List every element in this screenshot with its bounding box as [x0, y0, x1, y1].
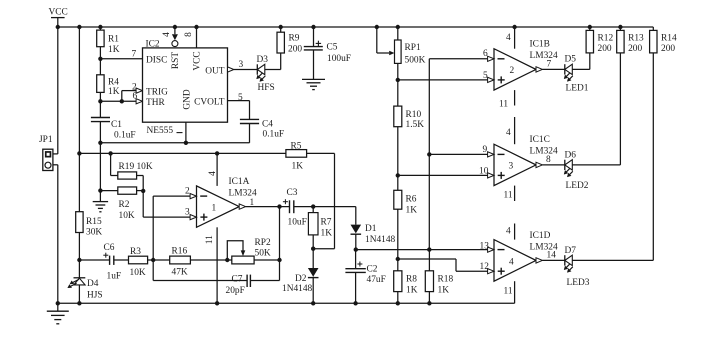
- svg-text:CVOLT: CVOLT: [194, 98, 225, 108]
- capacitor C5 100uF: [304, 41, 351, 64]
- junction output/feedback: [277, 204, 281, 208]
- ground symbol bottom left: [47, 303, 69, 324]
- svg-text:4: 4: [509, 257, 514, 267]
- junction R7 top: [311, 204, 315, 208]
- wire rail to R12: [589, 27, 591, 30]
- wire VCC rail to JP1 pin 1: [53, 27, 58, 154]
- wire VCC top rail: [58, 26, 654, 28]
- junction on VCC rail: [618, 25, 622, 29]
- svg-text:RP2: RP2: [255, 238, 271, 248]
- RP1 wiper arrow: [389, 51, 394, 56]
- wire IC1D output to D7: [542, 259, 564, 261]
- LED D5 LED1: [564, 55, 589, 94]
- op-amp IC1D LM324: [480, 231, 558, 281]
- svg-text:4: 4: [506, 33, 511, 43]
- junction on VCC rail: [396, 25, 400, 29]
- svg-text:13: 13: [480, 242, 490, 252]
- svg-text:4: 4: [506, 128, 511, 138]
- pin 5 CVOLT wire to C4: [228, 93, 250, 119]
- wire D2 node to D2: [312, 249, 314, 268]
- wire C6 to R3: [114, 259, 129, 261]
- junction RP1/R10 node: [396, 78, 400, 82]
- wire C6 node to C6: [79, 259, 109, 261]
- svg-text:R7: R7: [321, 218, 332, 228]
- svg-text:R16: R16: [172, 246, 188, 256]
- svg-text:11: 11: [205, 235, 215, 244]
- svg-text:4: 4: [506, 227, 511, 237]
- svg-text:7: 7: [132, 50, 137, 60]
- pin 3 OUT arrow: [228, 60, 244, 72]
- junction on VCC rail: [279, 25, 283, 29]
- svg-text:LED2: LED2: [566, 181, 589, 191]
- junction feedback/output node: [277, 258, 281, 262]
- svg-text:R8: R8: [406, 275, 417, 285]
- wire node to IC1B pin 5: [398, 79, 488, 81]
- svg-text:200: 200: [288, 44, 302, 54]
- wire R18 top lead: [428, 250, 430, 271]
- pin 6 THR arrow: [133, 92, 143, 104]
- wire THR node to C1: [99, 101, 101, 117]
- resistor R16 47K: [170, 246, 191, 277]
- svg-text:200: 200: [661, 44, 675, 54]
- svg-text:10K: 10K: [119, 211, 135, 221]
- resistor R8 1K: [394, 271, 418, 296]
- svg-text:DISC: DISC: [146, 56, 167, 66]
- wire bus to IC1C pin 9: [429, 153, 488, 155]
- junction D1/C2 node: [354, 247, 358, 251]
- wire TRIG branch: [122, 91, 136, 102]
- svg-text:6: 6: [483, 49, 488, 59]
- svg-text:LM324: LM324: [530, 243, 558, 253]
- junction R10/R6 node: [396, 173, 400, 177]
- capacitor C7 20pF: [226, 275, 251, 296]
- junction R6/R8 node: [396, 257, 400, 261]
- wire IC1B output to D5: [542, 68, 564, 70]
- svg-text:JP1: JP1: [39, 135, 53, 145]
- IC U2 NE555 body: [143, 40, 228, 137]
- svg-text:10uF: 10uF: [288, 218, 307, 228]
- op-amp IC1C LM324: [479, 135, 558, 186]
- junction on VCC rail: [56, 25, 60, 29]
- resistor R15 30K: [76, 212, 103, 238]
- wire C2 to ground rail: [355, 272, 357, 303]
- junction RP2 wiper loop node: [225, 258, 229, 262]
- diode D2 1N4148: [282, 268, 319, 294]
- svg-text:R18: R18: [438, 275, 454, 285]
- svg-text:4: 4: [162, 32, 172, 37]
- svg-text:C6: C6: [104, 243, 115, 253]
- svg-text:THR: THR: [146, 98, 165, 108]
- svg-text:6: 6: [133, 92, 138, 102]
- potentiometer RP1 500K: [395, 40, 426, 66]
- junction on VCC rail: [311, 25, 315, 29]
- svg-text:5: 5: [483, 71, 488, 81]
- svg-text:R3: R3: [130, 247, 141, 257]
- svg-text:500K: 500K: [405, 56, 426, 66]
- svg-text:20pF: 20pF: [226, 286, 245, 296]
- svg-text:2: 2: [510, 66, 515, 76]
- junction IC1A pin11 ground: [215, 301, 219, 305]
- wire D2 to ground rail: [312, 277, 314, 304]
- ground symbol under R2: [93, 191, 108, 212]
- wire node to IC1D pin 12: [398, 259, 488, 271]
- wire JP1 pin 2 to ground rail: [53, 165, 58, 303]
- svg-text:LM324: LM324: [530, 51, 558, 61]
- IC1C pin 4 stub: [506, 117, 515, 144]
- svg-text:R5: R5: [291, 141, 302, 151]
- resistor R9 200: [277, 32, 302, 54]
- wire D5 to R12: [572, 53, 590, 70]
- IC1C pin 11 stub: [504, 186, 515, 201]
- wire gnd net down to R2: [99, 143, 101, 191]
- svg-text:1: 1: [212, 203, 217, 213]
- svg-text:1K: 1K: [108, 87, 120, 97]
- resistor R2 10K: [118, 187, 137, 221]
- svg-text:NE555: NE555: [147, 126, 174, 136]
- wire C6 node down to D4: [78, 260, 80, 278]
- wire R2 left lead: [100, 190, 117, 192]
- svg-text:10K: 10K: [130, 268, 146, 278]
- svg-text:VCC: VCC: [49, 8, 68, 18]
- svg-text:0.1uF: 0.1uF: [263, 130, 285, 140]
- junction bus bottom node: [427, 247, 431, 251]
- svg-text:D1: D1: [365, 224, 377, 234]
- IC1B pin 11 stub: [499, 90, 515, 109]
- wire D3 to R9: [265, 53, 281, 70]
- svg-text:8: 8: [184, 32, 194, 37]
- junction bias wire IC1A pin4: [215, 151, 219, 155]
- wire rail to RP1 top: [397, 27, 399, 40]
- wire C7 branch right: [250, 260, 279, 281]
- svg-text:47uF: 47uF: [367, 275, 386, 285]
- pin 1 GND stub: [185, 122, 187, 143]
- wire R1 to pin7 node: [99, 47, 101, 59]
- junction feedback node pin2: [151, 258, 155, 262]
- wire node to IC1C pin 10: [398, 174, 488, 176]
- svg-text:C5: C5: [327, 43, 338, 53]
- wire gnd net C1-C4: [100, 142, 249, 144]
- IC1A pin 4 stub: [208, 153, 218, 186]
- svg-text:10: 10: [479, 167, 489, 177]
- wire R7 to D2 node: [312, 235, 314, 249]
- wire node down to R6: [397, 175, 399, 190]
- wire rail to R14: [652, 27, 654, 30]
- svg-text:3: 3: [239, 60, 244, 70]
- wire R4 to THR node: [99, 92, 101, 101]
- svg-text:200: 200: [598, 44, 612, 54]
- svg-text:LED3: LED3: [567, 278, 590, 288]
- svg-text:TRIG: TRIG: [146, 87, 168, 97]
- junction R7/D2/R5 node: [311, 247, 315, 251]
- svg-text:1N4148: 1N4148: [365, 235, 396, 245]
- wire node down to R10: [397, 80, 399, 106]
- junction on VCC rail: [375, 25, 379, 29]
- wire pin7 node to R4: [99, 59, 101, 75]
- svg-text:R12: R12: [598, 33, 614, 43]
- junction NE555 GND pin: [184, 141, 188, 145]
- junction D2 ground: [311, 301, 315, 305]
- svg-text:1K: 1K: [321, 229, 333, 239]
- capacitor C1 0.1uF: [91, 118, 136, 141]
- svg-text:200: 200: [628, 44, 642, 54]
- svg-text:47K: 47K: [172, 268, 188, 278]
- svg-text:8: 8: [546, 155, 551, 165]
- svg-text:R14: R14: [661, 33, 677, 43]
- op-amp IC1B LM324: [483, 40, 558, 91]
- resistor R7 1K: [308, 213, 332, 239]
- wire node to R16: [153, 259, 170, 261]
- wire R5 right lead to D2 node: [307, 153, 335, 248]
- svg-text:C3: C3: [287, 188, 298, 198]
- svg-text:IC1B: IC1B: [530, 40, 550, 50]
- capacitor C6 1uF: [103, 243, 121, 282]
- capacitor C2 47uF: [345, 262, 385, 285]
- junction TRIG branch: [120, 99, 124, 103]
- pin 8 VCC wire: [184, 27, 196, 48]
- wire C2 top lead: [355, 250, 357, 269]
- wire rail to R1: [99, 27, 101, 30]
- svg-text:4: 4: [208, 171, 218, 176]
- wire C3 to D1 corner: [294, 207, 356, 225]
- svg-text:LM324: LM324: [530, 147, 558, 157]
- junction pin7 node: [98, 57, 102, 61]
- junction on VCC rail: [588, 25, 592, 29]
- svg-text:RP1: RP1: [405, 43, 421, 53]
- junction on VCC rail: [194, 25, 198, 29]
- svg-text:LED1: LED1: [566, 83, 589, 93]
- resistor R14 200: [650, 30, 677, 54]
- junction C1 bottom: [98, 141, 102, 145]
- pin 4 RST wire with inverter bubble: [162, 27, 178, 47]
- svg-text:1K: 1K: [438, 286, 450, 296]
- wire signal node to IC1D pin 13: [356, 249, 488, 251]
- wire IC1B pin 6 net: [429, 59, 488, 250]
- resistor R19 10K: [118, 162, 153, 179]
- wire rail to R9: [280, 27, 282, 32]
- svg-text:C2: C2: [367, 264, 378, 274]
- wire IC1A output to C3: [246, 206, 290, 208]
- svg-text:HJS: HJS: [87, 291, 103, 301]
- svg-text:RST: RST: [171, 52, 181, 69]
- wire THR node: [100, 100, 136, 102]
- wire rail to C5: [313, 27, 315, 47]
- wire RP2 to output branch: [254, 259, 279, 261]
- junction R2 left node: [98, 188, 102, 192]
- junction on VCC rail: [98, 25, 102, 29]
- svg-text:C1: C1: [111, 120, 122, 130]
- wire R2 right lead: [137, 190, 144, 192]
- resistor R18 1K: [425, 271, 453, 296]
- svg-text:IC1D: IC1D: [530, 231, 551, 241]
- svg-text:HFS: HFS: [258, 83, 275, 93]
- IC1B pin 4 stub: [506, 27, 515, 49]
- svg-text:1.5K: 1.5K: [406, 120, 425, 130]
- resistor R4 1K: [97, 75, 120, 97]
- svg-text:1K: 1K: [406, 206, 418, 216]
- connector JP1: [39, 135, 53, 171]
- resistor R1 1K: [97, 30, 120, 55]
- junction bias wire at x79: [77, 151, 81, 155]
- wire R16 to RP2: [190, 259, 231, 261]
- resistor R6 1K: [394, 190, 417, 215]
- svg-text:30K: 30K: [86, 228, 102, 238]
- svg-text:D3: D3: [257, 55, 269, 65]
- pin 2 TRIG arrow: [132, 83, 143, 94]
- resistor R5 1K: [286, 141, 307, 171]
- svg-text:11: 11: [504, 191, 513, 201]
- svg-text:0.1uF: 0.1uF: [114, 131, 136, 141]
- svg-text:1K: 1K: [406, 286, 418, 296]
- svg-text:D2: D2: [295, 274, 307, 284]
- svg-text:12: 12: [480, 262, 490, 272]
- svg-text:R15: R15: [86, 217, 102, 227]
- photodiode D4 HJS: [67, 278, 102, 301]
- svg-text:1N4148: 1N4148: [282, 284, 313, 294]
- svg-text:3: 3: [509, 162, 514, 172]
- resistor R12 200: [586, 30, 613, 54]
- svg-text:50K: 50K: [255, 248, 271, 258]
- junction bus IC1C pin 9 tap: [427, 152, 431, 156]
- svg-text:100uF: 100uF: [327, 54, 351, 64]
- wire bottom ground rail: [58, 302, 515, 304]
- svg-text:R19 10K: R19 10K: [119, 162, 153, 172]
- wire RP1 bottom to node: [397, 63, 399, 80]
- wire VCC rail down x79 to R15: [78, 27, 80, 212]
- junction C6 node: [77, 258, 81, 262]
- svg-text:R9: R9: [289, 34, 300, 44]
- wire D7 to R14: [572, 53, 653, 261]
- wire IC1C output to D6: [542, 164, 564, 166]
- junction R4 bottom: [98, 99, 102, 103]
- svg-text:GND: GND: [182, 89, 192, 110]
- wire R7 top lead: [312, 207, 314, 213]
- junction ground rail left end: [56, 301, 60, 305]
- junction R18 ground: [427, 301, 431, 305]
- power symbol VCC: [49, 8, 68, 28]
- svg-text:C7: C7: [232, 275, 243, 285]
- svg-text:IC2: IC2: [146, 40, 160, 50]
- wire R19 left lead: [111, 153, 118, 175]
- svg-text:D7: D7: [565, 246, 577, 256]
- junction R8 ground: [396, 301, 400, 305]
- svg-text:R10: R10: [406, 110, 422, 120]
- resistor R3 10K: [129, 247, 148, 278]
- wire IC1A pin 2 to feedback node: [153, 196, 190, 260]
- wire OUT to D3: [234, 69, 257, 71]
- svg-text:7: 7: [547, 60, 552, 70]
- capacitor C3 10uF: [283, 188, 307, 227]
- wire rail to R13: [619, 27, 621, 30]
- RP2 wiper arrow: [241, 250, 246, 256]
- wire R3 to node: [148, 259, 154, 261]
- svg-text:11: 11: [499, 100, 508, 110]
- wire C1 to gnd wire: [99, 122, 101, 143]
- wire rail to RP1 wiper: [377, 27, 389, 53]
- wire R10 to node: [397, 127, 399, 176]
- wire node down to R8: [397, 259, 399, 271]
- svg-text:R4: R4: [108, 77, 119, 87]
- IC1D pin 11 stub to ground rail: [504, 281, 515, 303]
- svg-text:1K: 1K: [292, 162, 304, 172]
- svg-text:C4: C4: [262, 120, 273, 130]
- junction on VCC rail: [173, 25, 177, 29]
- wire RP2 wiper loop: [227, 241, 243, 260]
- svg-text:OUT: OUT: [205, 66, 225, 76]
- ground symbol under C5: [302, 79, 325, 89]
- svg-text:LM324: LM324: [229, 189, 257, 199]
- op-amp IC1A LM324: [185, 177, 257, 227]
- svg-text:R2: R2: [119, 200, 130, 210]
- junction R19/R2/pin3 node: [141, 189, 145, 193]
- svg-text:VCC: VCC: [193, 51, 203, 70]
- LED D6 LED2: [564, 151, 589, 192]
- svg-text:IC1A: IC1A: [229, 177, 250, 187]
- wire C7 branch left: [153, 260, 247, 281]
- resistor R13 200: [617, 30, 644, 54]
- svg-text:D5: D5: [565, 55, 577, 65]
- LED D7 LED3: [564, 246, 590, 288]
- svg-text:R1: R1: [108, 35, 119, 45]
- IC1D pin 4 stub: [506, 224, 515, 240]
- wire DISC pin 7: [100, 50, 142, 60]
- junction on VCC rail: [77, 25, 81, 29]
- wire C5 to ground: [313, 50, 315, 80]
- svg-text:1K: 1K: [108, 45, 120, 55]
- resistor R10 1.5K: [394, 106, 424, 130]
- svg-text:R13: R13: [628, 33, 644, 43]
- wire R15 to C6 node: [78, 233, 80, 261]
- potentiometer RP2 50K: [232, 238, 271, 264]
- svg-text:1uF: 1uF: [107, 272, 122, 282]
- wire D4 to ground rail: [78, 285, 80, 303]
- junction on VCC rail: [512, 25, 516, 29]
- svg-text:2: 2: [185, 186, 190, 196]
- wire R8 to ground rail: [397, 292, 399, 304]
- wire VCC bias net: [79, 152, 286, 154]
- wire R6 to node: [397, 209, 399, 259]
- wire R19 right lead: [137, 176, 144, 191]
- svg-text:3: 3: [185, 207, 190, 217]
- svg-text:R6: R6: [406, 195, 417, 205]
- svg-text:9: 9: [483, 145, 488, 155]
- wire R18 to ground rail: [428, 292, 430, 304]
- svg-text:D4: D4: [87, 279, 99, 289]
- wire C4 to gnd net: [249, 124, 251, 143]
- diode D1 1N4148: [351, 224, 396, 245]
- junction bias wire R19 tap: [108, 151, 112, 155]
- capacitor C4 0.1uF: [240, 119, 284, 139]
- svg-text:11: 11: [504, 287, 513, 297]
- wire node to IC1A pin 3: [143, 191, 190, 217]
- IC1A pin 11 stub to ground: [205, 227, 217, 303]
- svg-text:D6: D6: [565, 151, 577, 161]
- junction D4 ground: [77, 301, 81, 305]
- wire feedback node up to output: [279, 207, 281, 260]
- junction C2 ground: [353, 301, 357, 305]
- wire D6 to R13: [572, 53, 620, 165]
- LED D3 HFS transmitter: [256, 55, 274, 93]
- wire D1 to signal node: [355, 234, 357, 249]
- svg-text:5: 5: [238, 93, 243, 103]
- svg-text:IC1C: IC1C: [530, 135, 550, 145]
- IC1A output arrow pin 1: [239, 198, 254, 209]
